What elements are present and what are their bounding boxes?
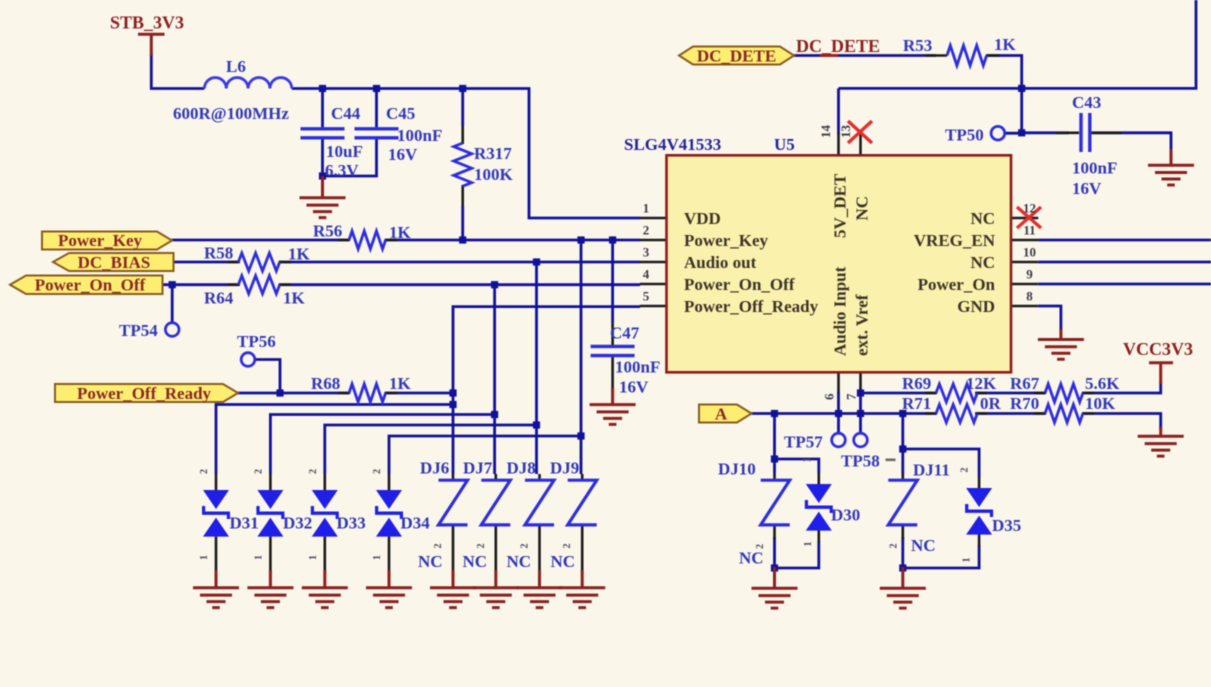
svg-text:D34: D34: [401, 514, 431, 533]
resistor R69: [936, 384, 977, 402]
node DJ11-D35 top: [899, 445, 906, 452]
svg-text:1K: 1K: [283, 289, 306, 308]
ground C43: [1148, 149, 1194, 185]
lead R71: [925, 412, 987, 415]
svg-text:11: 11: [1023, 223, 1035, 238]
pin 7 stub: [859, 372, 862, 393]
wire R317 column upper: [461, 89, 464, 127]
node R317-PowerKey: [459, 236, 466, 243]
wire R53 to corner down to TP50 node: [987, 56, 1022, 133]
svg-text:2: 2: [643, 223, 650, 238]
port DC_BIAS: [53, 253, 174, 271]
lead D31 upper: [215, 474, 218, 491]
node DJ7-PowerOnOff: [491, 281, 498, 288]
svg-text:12K: 12K: [966, 374, 997, 393]
svg-text:DJ9: DJ9: [550, 459, 579, 478]
svg-text:L6: L6: [226, 57, 246, 76]
wire D35 bottom link: [903, 545, 979, 568]
svg-text:6.3V: 6.3V: [325, 161, 359, 180]
svg-text:DC_DETE: DC_DETE: [697, 47, 776, 66]
node R68-DJ6col: [449, 389, 456, 396]
svg-text:16V: 16V: [388, 145, 418, 164]
port Power_On_Off: [10, 276, 163, 295]
svg-text:16V: 16V: [1072, 179, 1102, 198]
node TP56-PowerOffReady: [276, 389, 283, 396]
svg-text:2: 2: [476, 544, 487, 549]
resistor R67: [1045, 384, 1083, 402]
lead D35 upper: [978, 477, 981, 489]
lead C43 right: [1091, 132, 1122, 135]
svg-text:NC: NC: [853, 196, 872, 221]
wire DJ10 bottom: [773, 537, 776, 569]
svg-text:C43: C43: [1072, 93, 1101, 112]
diode D31: [202, 490, 230, 537]
testpoint TP50: [991, 126, 1005, 140]
wire D30 branch: [775, 459, 819, 473]
ground DJ6: [430, 570, 476, 608]
resistor R68: [349, 384, 386, 402]
svg-text:2: 2: [562, 544, 573, 549]
svg-text:DJ8: DJ8: [507, 459, 536, 478]
net label red underline DC_DETE: [820, 54, 838, 57]
svg-text:1K: 1K: [994, 35, 1017, 54]
svg-text:10uF: 10uF: [326, 142, 363, 161]
node D33row-DJ8col: [533, 421, 540, 428]
testpoint TP56: [241, 353, 255, 367]
resistor R317 vertical: [454, 143, 472, 186]
svg-text:4: 4: [643, 267, 650, 282]
svg-text:Power_Off_Ready: Power_Off_Ready: [77, 384, 212, 403]
node DJ10-D30 bottom: [771, 564, 778, 571]
svg-text:A: A: [715, 405, 728, 424]
lead D32 lower: [269, 537, 272, 572]
lead DJ10 upper: [773, 474, 776, 481]
node D32row-DJ7col: [491, 411, 498, 418]
svg-text:8: 8: [1026, 289, 1033, 304]
wire DJ8 column: [535, 262, 538, 474]
svg-text:1: 1: [643, 201, 650, 216]
wire pin14 column: [837, 88, 840, 134]
pin 10 stub: [1011, 261, 1038, 264]
wire DC_BIAS right segment to pin3: [280, 261, 640, 264]
pin 11 stub: [1011, 239, 1038, 242]
node DJ10-D30 top: [771, 455, 778, 462]
jumper DJ8: [525, 480, 554, 525]
port A: [699, 405, 752, 423]
svg-text:R67: R67: [1010, 374, 1040, 393]
svg-text:2: 2: [253, 469, 264, 474]
op-amp U1 IC body SLG4V41533 U5: [667, 155, 1012, 372]
pin 2 stub: [640, 239, 667, 242]
wire pin10 to right edge: [1038, 261, 1211, 264]
wire TP56 link: [255, 360, 280, 394]
svg-text:D30: D30: [831, 506, 860, 525]
svg-text:C47: C47: [610, 324, 640, 343]
lead R317 upper: [461, 126, 464, 144]
pin 12 stub: [1011, 217, 1038, 220]
svg-text:5: 5: [643, 289, 650, 304]
ground R70: [1138, 427, 1184, 456]
lead R53 left: [925, 54, 947, 57]
svg-text:NC: NC: [418, 552, 443, 571]
svg-text:NC: NC: [463, 552, 488, 571]
svg-text:NC: NC: [507, 552, 532, 571]
svg-text:R71: R71: [902, 394, 931, 413]
svg-text:100K: 100K: [474, 165, 514, 184]
svg-text:Power_Off_Ready: Power_Off_Ready: [684, 297, 819, 316]
node pin6-Aline: [835, 410, 842, 417]
lead R68: [338, 392, 397, 395]
testpoint TP58: [854, 433, 868, 447]
svg-text:STB_3V3: STB_3V3: [110, 13, 184, 33]
svg-text:R56: R56: [313, 222, 342, 241]
pin 6 stub: [837, 372, 840, 393]
lead D30 upper: [817, 473, 820, 485]
svg-text:DC_DETE: DC_DETE: [796, 36, 880, 56]
svg-text:1: 1: [253, 555, 264, 560]
ground DJ9: [559, 570, 605, 608]
wire rail from L6 to VDD corner: [292, 89, 640, 219]
node C47-PowerKey: [609, 236, 616, 243]
svg-text:2: 2: [960, 468, 971, 473]
svg-text:6: 6: [822, 393, 837, 400]
svg-text:D32: D32: [283, 514, 312, 533]
port Power_Key: [42, 232, 172, 250]
wire D33 row: [325, 425, 537, 474]
lead DJ9 lower: [581, 526, 584, 573]
svg-text:Power_On: Power_On: [918, 275, 996, 294]
lead DJ10 lower: [773, 525, 776, 539]
svg-text:100nF: 100nF: [1072, 159, 1117, 178]
lead R53 right: [986, 54, 1000, 57]
svg-text:D33: D33: [337, 514, 366, 533]
svg-text:7: 7: [844, 393, 859, 400]
jumper DJ11: [888, 480, 917, 525]
lead C47 lower: [611, 356, 614, 389]
svg-text:2: 2: [199, 469, 210, 474]
svg-text:Power_On_Off: Power_On_Off: [35, 276, 146, 295]
power VCC3V3: [1149, 363, 1173, 384]
svg-text:R68: R68: [311, 374, 340, 393]
testpoint TP57: [832, 433, 846, 447]
svg-text:3: 3: [643, 245, 650, 260]
wire C43 left lead: [1022, 131, 1069, 134]
inductor L6: [204, 78, 291, 89]
diode D33: [311, 490, 339, 537]
svg-text:DJ11: DJ11: [913, 461, 950, 480]
node pin7-R69: [857, 389, 864, 396]
pin 1 stub: [640, 217, 667, 220]
svg-text:C44: C44: [331, 104, 361, 123]
wire 5V_DET rail: [839, 0, 1197, 88]
lead D34 upper: [388, 474, 391, 491]
no-connect X pin13: [848, 121, 872, 143]
svg-text:12: 12: [1023, 201, 1036, 216]
lead R317 lower: [461, 185, 464, 206]
wire TP50 link: [1005, 132, 1022, 135]
svg-text:SLG4V41533: SLG4V41533: [624, 135, 721, 154]
lead D33 lower: [323, 537, 326, 572]
svg-text:1: 1: [803, 542, 814, 547]
resistor R56: [349, 231, 386, 249]
lead DJ8 upper: [538, 474, 541, 481]
svg-text:D31: D31: [230, 514, 259, 533]
svg-text:0R: 0R: [980, 394, 1002, 413]
lead R64: [228, 283, 291, 286]
node TP50: [1018, 129, 1025, 136]
wire R69 divider top line: [861, 383, 1161, 393]
jumper DJ9: [568, 480, 597, 525]
svg-text:5.6K: 5.6K: [1085, 374, 1120, 393]
diode D32: [256, 490, 284, 537]
lead DJ6 lower: [452, 526, 455, 573]
node R53-5VDET rail: [1018, 85, 1025, 92]
wire D34 row: [389, 436, 581, 474]
svg-text:14: 14: [818, 125, 833, 139]
svg-text:D35: D35: [992, 516, 1021, 535]
svg-text:DC_BIAS: DC_BIAS: [78, 253, 151, 272]
svg-text:ext. Vref: ext. Vref: [853, 294, 872, 356]
node DJ8-DCBIAS: [533, 258, 540, 265]
svg-text:R317: R317: [474, 144, 512, 163]
wire pin5 line and DJ6 column: [453, 307, 640, 474]
pin 3 stub: [640, 261, 667, 264]
svg-text:TP57: TP57: [784, 433, 823, 452]
wire R317 column lower: [461, 206, 464, 240]
svg-text:R69: R69: [902, 374, 931, 393]
wire D31 row: [216, 405, 453, 475]
lead DJ8 lower: [538, 526, 541, 573]
lead R70: [1034, 412, 1094, 415]
ground D32: [247, 570, 293, 608]
pin 4 stub: [640, 283, 667, 286]
svg-text:13: 13: [838, 125, 853, 139]
wire TP54 drop: [171, 285, 174, 323]
lead DJ7 upper: [494, 474, 497, 481]
svg-text:DJ6: DJ6: [420, 459, 449, 478]
lead R56: [338, 239, 397, 242]
lead DJ11 upper: [901, 474, 904, 481]
lead D35 lower: [978, 533, 981, 546]
lead C47 upper: [611, 322, 614, 345]
svg-text:Power_On_Off: Power_On_Off: [684, 275, 795, 294]
svg-text:C45: C45: [386, 104, 415, 123]
lead R67: [1034, 392, 1094, 395]
svg-text:100nF: 100nF: [397, 126, 442, 145]
wire DJ10 column: [773, 414, 776, 475]
capacitor C45: [355, 129, 399, 138]
node rail-C45: [373, 85, 380, 92]
lead D30 lower: [817, 529, 820, 542]
ground C47: [590, 388, 636, 424]
resistor R64: [238, 276, 279, 294]
svg-text:1: 1: [962, 558, 973, 563]
wire pin9 to right edge: [1038, 283, 1211, 286]
lead D34 lower: [388, 537, 391, 572]
svg-text:1: 1: [308, 555, 319, 560]
jumper DJ6: [439, 480, 468, 525]
svg-text:NC: NC: [739, 549, 764, 568]
svg-text:1K: 1K: [389, 223, 412, 242]
wire Power_On_Off left segment: [162, 283, 238, 286]
svg-text:2: 2: [372, 469, 383, 474]
lead D33 upper: [323, 474, 326, 491]
svg-text:10K: 10K: [1085, 394, 1116, 413]
ground C44 C45: [300, 176, 346, 218]
ground pin8: [1038, 329, 1084, 359]
node rail-R317: [459, 85, 466, 92]
tick TP58 dash: [886, 458, 896, 461]
resistor R58: [238, 253, 279, 271]
wire D35 branch: [903, 449, 979, 477]
wire R68 to DJ6 column: [386, 392, 453, 395]
wire pin6 column to TP57: [837, 392, 840, 433]
node pin7-Aline: [857, 410, 864, 417]
testpoint TP54: [165, 323, 179, 337]
svg-text:R58: R58: [204, 244, 233, 263]
no-connect X pin12: [1017, 207, 1041, 228]
resistor R71: [936, 405, 977, 423]
svg-text:DJ7: DJ7: [463, 459, 493, 478]
svg-text:NC: NC: [970, 253, 995, 272]
svg-text:Power_Key: Power_Key: [58, 231, 143, 250]
node DJ10col-Aline: [771, 410, 778, 417]
wire DJ11 column: [901, 414, 904, 475]
port Power_Off_Ready: [55, 384, 238, 402]
svg-text:2: 2: [433, 544, 444, 549]
pin 14 stub: [837, 133, 840, 155]
svg-text:R70: R70: [1010, 394, 1039, 413]
node TP54-PowerOnOff: [169, 281, 176, 288]
wire D30 bottom link: [775, 541, 819, 568]
ground DJ11 D35: [880, 567, 926, 608]
wire DC_DETE to R53: [794, 54, 936, 57]
svg-text:NC: NC: [551, 552, 576, 571]
lead D31 lower: [215, 537, 218, 572]
node C44-C45 ground join: [319, 172, 326, 179]
svg-text:1: 1: [199, 555, 210, 560]
wire STB_3V3 stem down to rail: [151, 54, 204, 89]
node D31row-DJ6col: [449, 401, 456, 408]
lead DJ7 lower: [494, 526, 497, 573]
node DJ11-D35 bottom: [899, 564, 906, 571]
svg-text:2: 2: [889, 544, 900, 549]
svg-text:TP56: TP56: [237, 332, 276, 351]
diode D34: [375, 490, 403, 537]
lead D32 upper: [269, 474, 272, 491]
ground DJ10 D30: [752, 567, 798, 608]
node DJ11col-Aline: [899, 410, 906, 417]
node DJ9-PowerKey: [577, 236, 584, 243]
svg-text:NC: NC: [911, 536, 936, 555]
wire Power_Off_Ready to R68: [238, 392, 349, 395]
ground D34: [366, 570, 412, 608]
ground D31: [193, 570, 239, 608]
wire DJ9 column: [580, 240, 583, 474]
ground DJ7: [473, 570, 519, 608]
power STB_3V3: [138, 34, 165, 56]
capacitor C43 vertical plates: [1081, 113, 1090, 152]
svg-text:100nF: 100nF: [615, 358, 660, 377]
wire pin7 column to TP58: [859, 392, 862, 433]
svg-text:1K: 1K: [288, 245, 311, 264]
svg-text:10: 10: [1023, 245, 1036, 260]
wire C47 column: [611, 240, 614, 322]
svg-text:9: 9: [1026, 267, 1033, 282]
svg-text:2: 2: [308, 469, 319, 474]
jumper DJ10: [761, 480, 790, 525]
wire pin11 to right edge: [1038, 239, 1211, 242]
wire Power_Key line left segment: [172, 239, 349, 242]
wire C44 stubs: [321, 89, 324, 177]
resistor R53: [947, 46, 987, 66]
diode D35: [965, 488, 993, 535]
wire D32 row: [270, 415, 494, 475]
lead C43 left: [1056, 132, 1079, 135]
svg-text:DJ10: DJ10: [718, 460, 756, 479]
svg-text:16V: 16V: [619, 378, 649, 397]
wire DC_BIAS left segment: [173, 261, 238, 264]
jumper DJ7: [481, 480, 510, 525]
lead DJ9 upper: [581, 474, 584, 481]
svg-text:Power_Key: Power_Key: [684, 231, 769, 250]
svg-text:R64: R64: [204, 289, 234, 308]
pin 5 stub: [640, 305, 667, 308]
lead DJ6 upper: [452, 474, 455, 481]
svg-text:1K: 1K: [389, 374, 412, 393]
node D34row-DJ9col: [577, 432, 584, 439]
svg-text:TP54: TP54: [119, 321, 158, 340]
svg-text:VREG_EN: VREG_EN: [914, 231, 996, 250]
svg-text:1: 1: [372, 555, 383, 560]
capacitor C47: [591, 346, 635, 355]
capacitor C44: [301, 129, 345, 138]
wire pin8 to ground: [1038, 306, 1061, 331]
svg-text:TP58: TP58: [841, 452, 880, 471]
lead R69: [925, 392, 987, 395]
lead DJ11 lower: [901, 525, 904, 539]
diode D30: [805, 484, 833, 531]
svg-text:U5: U5: [774, 135, 795, 154]
resistor R70: [1045, 405, 1083, 423]
pin 9 stub: [1011, 283, 1038, 286]
wire Power_On_Off right segment to pin4: [280, 283, 640, 286]
svg-text:5V_DET: 5V_DET: [831, 173, 850, 238]
svg-text:Audio out: Audio out: [684, 253, 757, 272]
wire DJ7 column: [493, 285, 496, 474]
svg-text:2: 2: [755, 544, 766, 549]
wire C43 right lead to ground: [1092, 133, 1171, 151]
ground D33: [302, 570, 348, 608]
wire C45 stubs and bottom link: [323, 89, 377, 177]
wire A net line R71 divider bottom line: [751, 414, 1160, 430]
svg-text:NC: NC: [970, 209, 995, 228]
pin 8 stub: [1011, 305, 1038, 308]
svg-text:600R@100MHz: 600R@100MHz: [173, 104, 289, 123]
node rail-C44: [319, 85, 326, 92]
svg-text:Audio Input: Audio Input: [831, 266, 850, 356]
svg-text:VCC3V3: VCC3V3: [1123, 339, 1193, 359]
lead R58: [228, 261, 291, 264]
svg-text:GND: GND: [957, 297, 995, 316]
svg-text:R53: R53: [903, 36, 932, 55]
pin 13 stub: [859, 133, 862, 155]
ground DJ8: [517, 570, 563, 608]
port DC_DETE: [679, 47, 794, 65]
svg-text:2: 2: [520, 544, 531, 549]
wire DJ11 bottom: [901, 537, 904, 569]
wire Power_Key line right segment to pin2: [386, 239, 640, 242]
